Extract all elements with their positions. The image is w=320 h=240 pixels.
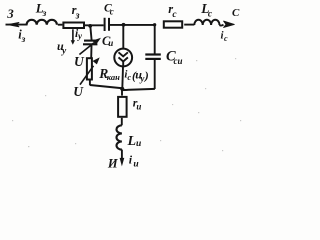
wire bottom rail left	[90, 85, 122, 88]
faint erased i_c label	[221, 30, 229, 44]
wire bottom rail right	[121, 89, 155, 90]
svg-text:с: с	[127, 72, 131, 82]
wire	[85, 24, 104, 26]
inductor L_c	[194, 1, 219, 25]
resistor R_кан variable	[80, 57, 120, 84]
current arrow i_з	[7, 22, 25, 45]
wire	[184, 24, 194, 26]
wire	[58, 24, 63, 26]
wire gate branch upper	[90, 26, 91, 40]
wire	[110, 24, 155, 26]
label i_и	[129, 153, 139, 170]
svg-text:L: L	[127, 134, 137, 149]
node source junction	[120, 87, 124, 91]
wire gate branch lower	[89, 81, 91, 86]
svg-text:с: с	[110, 6, 114, 16]
wire current source branch upper	[122, 25, 124, 48]
wire current source branch lower	[121, 67, 124, 89]
wire	[121, 118, 123, 126]
svg-text:з: з	[42, 9, 47, 19]
svg-text:): )	[144, 69, 149, 83]
svg-text:U: U	[73, 84, 84, 99]
wire C_си branch lower	[154, 59, 156, 89]
svg-text:И: И	[107, 157, 119, 171]
node gate junction	[88, 24, 92, 28]
svg-text:З: З	[6, 7, 14, 21]
resistor r_з	[63, 3, 84, 28]
inductor L_и	[116, 125, 141, 149]
wire drain lead with arrow	[220, 21, 235, 27]
svg-text:и: и	[136, 102, 141, 112]
svg-text:и: и	[133, 159, 138, 169]
svg-text:с: с	[224, 34, 228, 43]
capacitor C_c	[104, 3, 114, 31]
svg-text:у: у	[61, 47, 67, 57]
svg-text:и: и	[136, 139, 141, 149]
node C_си junction	[153, 23, 156, 26]
capacitor C_си	[145, 49, 182, 66]
svg-text:з: з	[21, 35, 26, 45]
current source i_c(u_у)	[114, 49, 149, 84]
current arrow i_у	[71, 28, 83, 45]
wire C_си branch upper	[154, 25, 156, 54]
node drain junction	[122, 23, 126, 27]
inductor L_з	[27, 1, 57, 25]
wire gate branch middle	[90, 45, 92, 58]
svg-text:си: си	[174, 56, 183, 66]
svg-text:кан: кан	[107, 72, 120, 82]
svg-text:и: и	[108, 38, 113, 48]
resistor r_и	[118, 96, 141, 117]
capacitor C_и variable	[79, 34, 113, 55]
scan speckles	[12, 58, 241, 151]
label u_у	[57, 39, 67, 57]
wire gate lead	[6, 24, 28, 26]
resistor r_c	[164, 2, 182, 28]
svg-text:C: C	[232, 7, 240, 19]
svg-text:U: U	[74, 54, 85, 69]
svg-text:з: з	[75, 10, 80, 21]
arrow i_и source lead	[120, 150, 125, 167]
wire source branch upper	[121, 89, 123, 96]
